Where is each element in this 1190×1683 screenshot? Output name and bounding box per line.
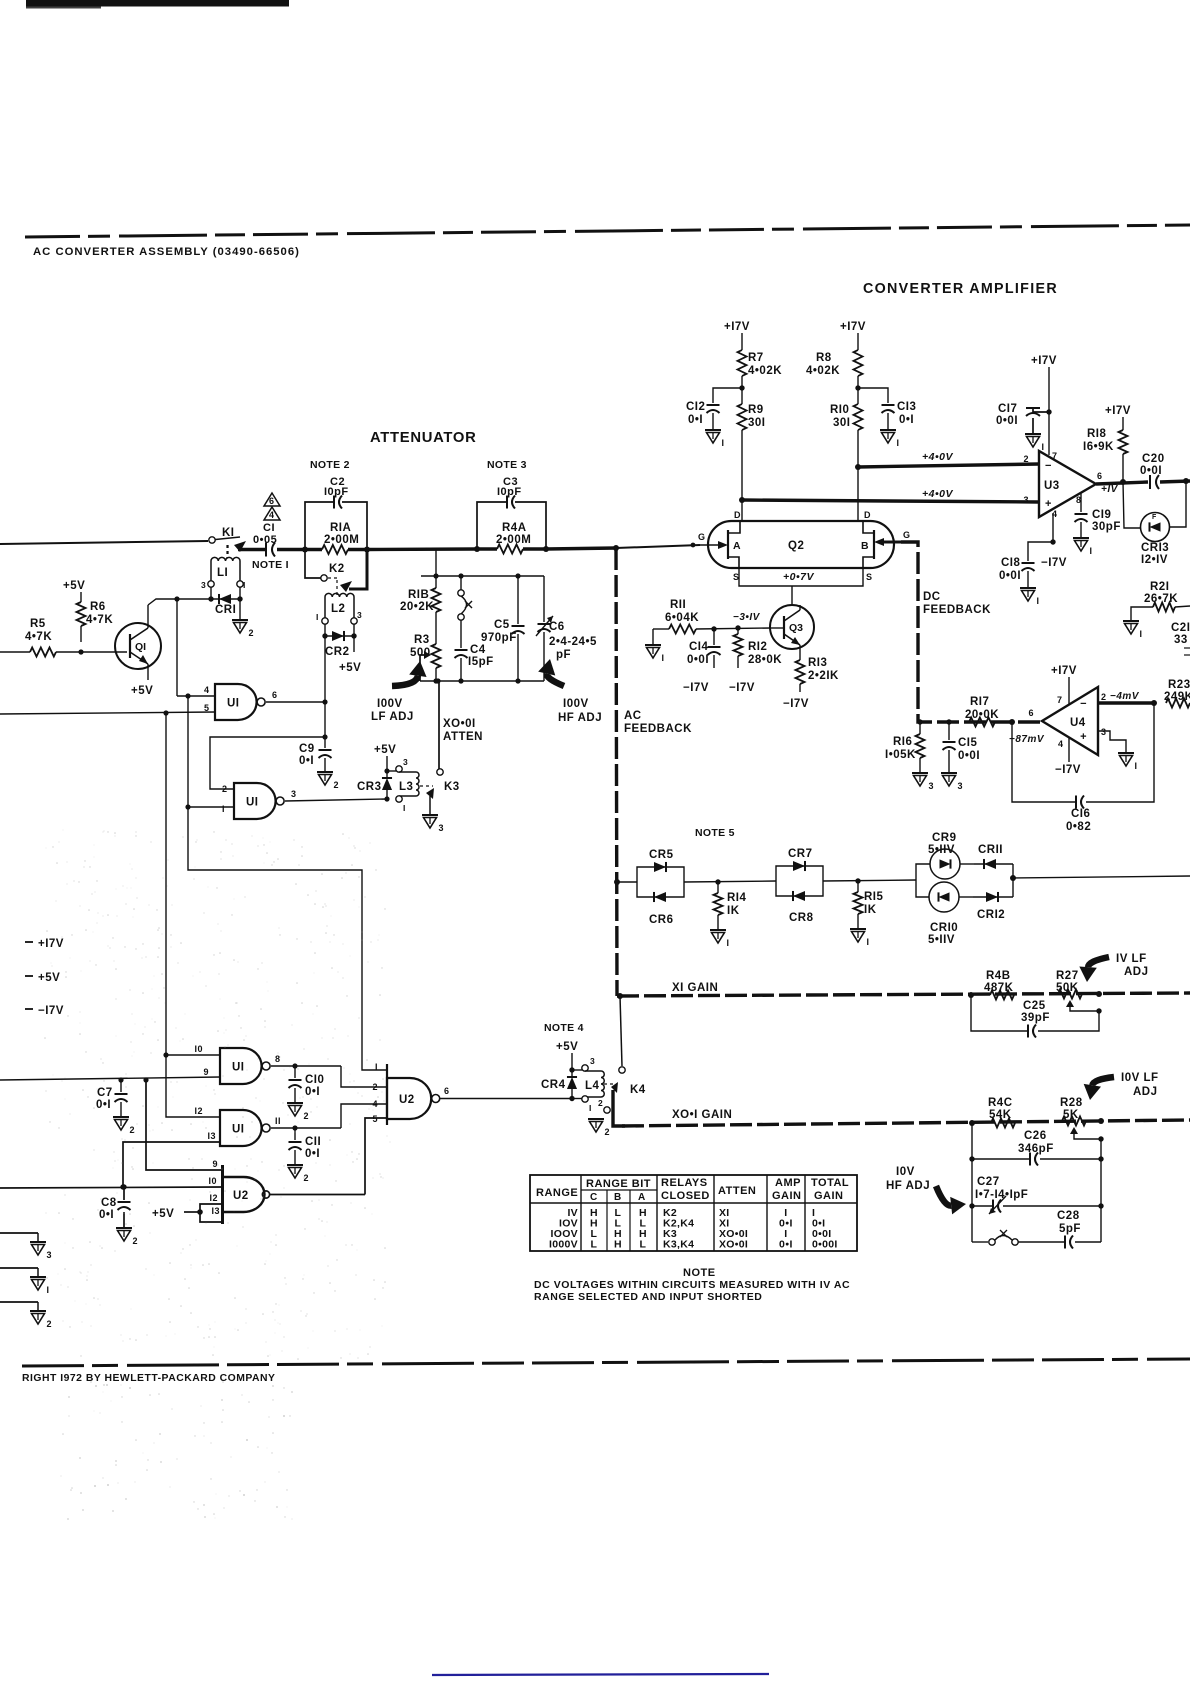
svg-text:30pF: 30pF bbox=[1092, 521, 1121, 533]
diode CR3 bbox=[357, 771, 392, 799]
svg-text:L: L bbox=[640, 1239, 647, 1251]
svg-text:NOTE 4: NOTE 4 bbox=[544, 1022, 584, 1034]
C3 bypass box bbox=[477, 502, 546, 549]
U1b pin1 wire bbox=[185, 804, 234, 814]
svg-text:NOTE 3: NOTE 3 bbox=[487, 459, 527, 471]
svg-text:ATTENUATOR: ATTENUATOR bbox=[370, 430, 476, 446]
+5V to U2b bbox=[152, 1204, 222, 1222]
assembly title bbox=[33, 246, 300, 258]
svg-text:7: 7 bbox=[1052, 451, 1058, 461]
relay coil L4 bbox=[572, 1056, 617, 1113]
svg-text:2•2IK: 2•2IK bbox=[808, 670, 839, 682]
svg-text:I00V: I00V bbox=[377, 698, 403, 710]
svg-text:I: I bbox=[662, 653, 665, 663]
wire R1A to R4A (thick) bbox=[367, 547, 477, 551]
svg-text:30I: 30I bbox=[833, 417, 851, 429]
resistor R7 bbox=[738, 333, 783, 377]
svg-text:RANGE BIT: RANGE BIT bbox=[586, 1178, 651, 1190]
riser U2 pin1 line bbox=[188, 807, 387, 1070]
arrow 100V HF ADJ bbox=[538, 659, 602, 724]
svg-text:−: − bbox=[1045, 460, 1052, 472]
svg-text:RI3: RI3 bbox=[808, 657, 827, 669]
svg-text:3: 3 bbox=[47, 1250, 53, 1260]
svg-text:DC VOLTAGES WITHIN CIRCUITS M: DC VOLTAGES WITHIN CIRCUITS MEASURED WIT… bbox=[534, 1279, 850, 1291]
svg-text:CR2: CR2 bbox=[325, 646, 350, 658]
svg-text:+5V: +5V bbox=[63, 580, 85, 592]
node U2d pin9 riser bbox=[143, 1077, 148, 1082]
diode CR11 bbox=[974, 844, 1013, 878]
svg-text:I•05K: I•05K bbox=[885, 749, 916, 761]
svg-text:AC: AC bbox=[624, 710, 642, 722]
capacitor C27 variable bbox=[969, 1176, 1103, 1214]
svg-text:CI6: CI6 bbox=[1071, 808, 1090, 820]
svg-text:R2I: R2I bbox=[1150, 581, 1169, 593]
svg-text:−3•IV: −3•IV bbox=[733, 612, 761, 623]
U2a pin2 link bbox=[341, 1066, 387, 1087]
svg-text:ADJ: ADJ bbox=[1133, 1086, 1158, 1098]
wire chain segment 1 bbox=[617, 881, 637, 883]
copyright line bbox=[22, 1373, 275, 1384]
svg-text:TOTAL: TOTAL bbox=[811, 1177, 849, 1189]
label X0.01 ATTEN bbox=[443, 718, 483, 743]
svg-text:CI5: CI5 bbox=[958, 737, 978, 749]
svg-text:+4•0V: +4•0V bbox=[922, 451, 953, 463]
svg-text:7: 7 bbox=[1057, 695, 1063, 705]
capacitor C17 bbox=[996, 403, 1049, 452]
ground R11 bbox=[645, 629, 669, 663]
resistor R16 bbox=[885, 719, 934, 791]
resistor R6 bbox=[77, 592, 114, 642]
arrow 100V LF ADJ bbox=[371, 661, 427, 723]
node X1 left bbox=[968, 992, 974, 998]
svg-text:5•IIV: 5•IIV bbox=[928, 934, 955, 946]
wire R10 down to Q2 drain B bbox=[855, 430, 861, 521]
wire R4A to Q2 gate (thick) bbox=[546, 545, 700, 549]
node R7-R9 bbox=[739, 376, 744, 404]
wire CR2 node down bbox=[322, 702, 327, 740]
label NOTE 5 bbox=[695, 827, 735, 839]
svg-text:I: I bbox=[727, 938, 730, 948]
resistor R5 bbox=[0, 618, 81, 657]
svg-text:R27: R27 bbox=[1056, 970, 1079, 982]
wire K1 to C1 (thick) bbox=[238, 548, 265, 551]
transistor Q2 bbox=[698, 510, 911, 582]
node diode chain left bbox=[614, 879, 620, 885]
resistor R8 bbox=[806, 333, 863, 377]
resistor R4C bbox=[988, 1097, 1015, 1128]
relay contact K3 bbox=[422, 769, 460, 833]
svg-text:RIA: RIA bbox=[330, 522, 351, 534]
svg-text:3: 3 bbox=[590, 1056, 595, 1066]
note line 1 bbox=[534, 1279, 850, 1291]
svg-text:CI: CI bbox=[263, 522, 275, 534]
svg-text:RELAYS: RELAYS bbox=[661, 1177, 708, 1189]
svg-text:+5V: +5V bbox=[374, 744, 396, 756]
svg-text:CRI3: CRI3 bbox=[1141, 542, 1169, 554]
node R4A left bbox=[474, 546, 480, 552]
note line 2 bbox=[534, 1291, 762, 1303]
svg-text:5: 5 bbox=[204, 703, 210, 713]
U2b pin9 wire bbox=[146, 1080, 222, 1170]
switch X0.01 upper contact bbox=[458, 576, 472, 620]
svg-text:I: I bbox=[316, 612, 319, 622]
svg-text:−I7V: −I7V bbox=[729, 682, 755, 694]
svg-text:R5: R5 bbox=[30, 618, 46, 630]
capacitor C18 bbox=[999, 542, 1053, 606]
svg-text:30I: 30I bbox=[748, 417, 766, 429]
svg-text:AMP: AMP bbox=[775, 1177, 801, 1189]
svg-text:pF: pF bbox=[556, 649, 571, 661]
svg-text:0•I: 0•I bbox=[688, 414, 703, 426]
label NOTE 4 bbox=[544, 1022, 584, 1034]
svg-text:3: 3 bbox=[403, 757, 408, 767]
U1c pin9 wire bbox=[0, 1067, 220, 1080]
svg-text:C9: C9 bbox=[299, 743, 315, 755]
svg-text:A: A bbox=[733, 540, 741, 552]
svg-text:RIB: RIB bbox=[408, 589, 429, 601]
node CR1 left vert bbox=[174, 596, 179, 601]
svg-text:CONVERTER AMPLIFIER: CONVERTER AMPLIFIER bbox=[863, 281, 1058, 297]
wire chain to edge bbox=[1010, 875, 1190, 881]
diode CR2 bbox=[322, 624, 356, 658]
capacitor C8 bbox=[99, 1184, 138, 1246]
U2b pin13 label bbox=[211, 1206, 220, 1216]
svg-text:I: I bbox=[1140, 629, 1143, 639]
svg-text:2: 2 bbox=[133, 1236, 139, 1246]
U4 pin3 wire bbox=[1098, 731, 1138, 771]
U1a pin4 wire bbox=[177, 685, 215, 699]
wire chain segment 2 bbox=[684, 879, 776, 884]
svg-text:−I7V: −I7V bbox=[683, 682, 709, 694]
svg-text:R3: R3 bbox=[414, 634, 430, 646]
svg-text:CRI0: CRI0 bbox=[930, 922, 958, 934]
capacitor C9 bbox=[299, 737, 339, 790]
svg-text:4•7K: 4•7K bbox=[86, 614, 113, 626]
rail label -17V bbox=[25, 1005, 64, 1017]
svg-text:CI8: CI8 bbox=[1001, 557, 1021, 569]
wire chain segment 3 bbox=[823, 878, 916, 883]
nand U1a bbox=[215, 684, 265, 720]
relay coil L2 bbox=[316, 593, 362, 624]
svg-text:0•00I: 0•00I bbox=[812, 1239, 838, 1251]
svg-text:CI0: CI0 bbox=[305, 1074, 324, 1086]
C2 bypass box bbox=[305, 502, 367, 549]
resistor R1B bbox=[400, 576, 441, 613]
svg-text:I: I bbox=[47, 1285, 50, 1295]
arrow 1V LF ADJ bbox=[1079, 953, 1148, 982]
svg-text:CI7: CI7 bbox=[998, 403, 1017, 415]
switch C28 row bbox=[972, 1230, 1064, 1245]
svg-text:2: 2 bbox=[605, 1127, 611, 1137]
svg-text:0•I: 0•I bbox=[299, 755, 314, 767]
svg-text:0•0I: 0•0I bbox=[958, 750, 980, 762]
U1d output wire bbox=[271, 1116, 341, 1131]
capacitor C13 bbox=[858, 388, 916, 448]
node C7 bbox=[118, 1077, 123, 1082]
resistor R21 bbox=[1123, 581, 1190, 639]
svg-text:GAIN: GAIN bbox=[772, 1190, 802, 1202]
svg-text:ADJ: ADJ bbox=[1124, 966, 1149, 978]
capacitor C7 bbox=[96, 1080, 135, 1135]
svg-text:2: 2 bbox=[130, 1125, 136, 1135]
resistor R13 bbox=[783, 645, 839, 710]
svg-text:I6•9K: I6•9K bbox=[1083, 441, 1114, 453]
svg-text:IK: IK bbox=[727, 905, 740, 917]
svg-text:3: 3 bbox=[357, 610, 362, 620]
svg-text:UI: UI bbox=[232, 1062, 245, 1074]
svg-text:4•02K: 4•02K bbox=[806, 365, 840, 377]
capacitor C14 bbox=[683, 629, 721, 694]
svg-text:R9: R9 bbox=[748, 404, 764, 416]
svg-text:+5V: +5V bbox=[339, 662, 361, 674]
node divider switch top bbox=[458, 573, 463, 578]
svg-text:4•02K: 4•02K bbox=[748, 365, 782, 377]
warning triangle 4 bbox=[264, 507, 280, 520]
svg-text:C20: C20 bbox=[1142, 453, 1165, 465]
capacitor C3 bbox=[497, 476, 522, 509]
svg-text:0•I: 0•I bbox=[779, 1239, 793, 1251]
U3 output wire (thick) bbox=[1096, 479, 1148, 495]
rail label +17V bbox=[25, 938, 64, 950]
top dashed assembly border bbox=[25, 225, 1190, 237]
svg-text:CRI: CRI bbox=[215, 604, 236, 616]
relay contact K2 bbox=[305, 549, 367, 597]
ground stub 3 bbox=[0, 1233, 52, 1260]
svg-text:+I7V: +I7V bbox=[1051, 665, 1077, 677]
svg-text:+5V: +5V bbox=[556, 1041, 578, 1053]
svg-text:2: 2 bbox=[249, 628, 255, 638]
svg-text:C: C bbox=[590, 1192, 598, 1203]
wire Q1 collector to CR1 node bbox=[148, 599, 212, 605]
label -3.1V bbox=[733, 612, 761, 623]
node R8-R10 bbox=[855, 376, 860, 404]
svg-text:I2: I2 bbox=[194, 1106, 203, 1116]
diode CR8 bbox=[776, 881, 823, 924]
svg-text:2: 2 bbox=[304, 1111, 310, 1121]
svg-text:RI4: RI4 bbox=[727, 892, 747, 904]
svg-text:9: 9 bbox=[203, 1067, 209, 1077]
svg-text:0•I: 0•I bbox=[305, 1148, 320, 1160]
svg-text:2•4-24•5: 2•4-24•5 bbox=[549, 636, 597, 648]
wire DC feedback (thick dashed) bbox=[901, 542, 1042, 722]
U1a output wire bbox=[266, 690, 328, 705]
svg-text:B: B bbox=[861, 540, 869, 552]
svg-text:I0pF: I0pF bbox=[324, 486, 349, 498]
svg-text:UI: UI bbox=[246, 797, 259, 809]
U1d pin12 wire bbox=[166, 1055, 220, 1117]
+17V label U4 bbox=[1051, 665, 1077, 704]
svg-text:I: I bbox=[722, 438, 725, 448]
wire X1 gain (thick dashed) bbox=[617, 982, 1190, 996]
svg-text:K4: K4 bbox=[630, 1084, 646, 1096]
svg-text:+I7V: +I7V bbox=[1105, 405, 1131, 417]
svg-text:IK: IK bbox=[864, 904, 877, 916]
svg-text:Q3: Q3 bbox=[789, 622, 803, 634]
svg-text:C5: C5 bbox=[494, 619, 510, 631]
wire R1A-right down bbox=[435, 549, 437, 576]
svg-text:Q2: Q2 bbox=[788, 540, 804, 552]
svg-text:I•7-I4•IpF: I•7-I4•IpF bbox=[975, 1189, 1028, 1201]
wire +4.0V lower (thick) bbox=[742, 488, 1039, 502]
+5V for L4 bbox=[556, 1041, 578, 1073]
svg-text:C27: C27 bbox=[977, 1176, 1000, 1188]
capacitor C2 bbox=[324, 476, 349, 509]
svg-text:I: I bbox=[222, 804, 225, 814]
svg-text:4•7K: 4•7K bbox=[25, 631, 52, 643]
riser B line bbox=[165, 713, 167, 1055]
svg-text:2: 2 bbox=[47, 1319, 53, 1329]
svg-text:RANGE SELECTED AND INPUT SH: RANGE SELECTED AND INPUT SHORTED bbox=[534, 1291, 762, 1303]
+17V label R18 bbox=[1105, 405, 1131, 417]
wire AC feedback (thick dashed) bbox=[616, 548, 617, 996]
note heading bbox=[683, 1267, 716, 1279]
svg-text:DC: DC bbox=[923, 591, 941, 603]
+5V label R6 bbox=[63, 580, 85, 592]
svg-text:RANGE: RANGE bbox=[536, 1187, 578, 1199]
resistor R9 bbox=[738, 404, 766, 430]
svg-text:346pF: 346pF bbox=[1018, 1143, 1054, 1155]
Q2 source bus bbox=[739, 568, 863, 605]
svg-text:+IV: +IV bbox=[1101, 484, 1119, 495]
svg-text:+: + bbox=[1080, 731, 1087, 743]
U2a output wire bbox=[440, 1086, 573, 1099]
svg-text:C28: C28 bbox=[1057, 1210, 1080, 1222]
svg-text:I: I bbox=[1135, 761, 1138, 771]
resistor R14 bbox=[710, 882, 747, 948]
svg-text:D: D bbox=[734, 510, 741, 520]
svg-text:IV LF: IV LF bbox=[1116, 953, 1147, 965]
wire R11 to Q3 base bbox=[696, 625, 771, 631]
svg-text:U3: U3 bbox=[1044, 480, 1060, 492]
svg-text:RI6: RI6 bbox=[893, 736, 912, 748]
svg-text:−: − bbox=[1080, 698, 1087, 710]
svg-text:ATTEN: ATTEN bbox=[718, 1185, 756, 1197]
svg-text:I: I bbox=[403, 803, 406, 813]
svg-text:2: 2 bbox=[1023, 454, 1029, 464]
svg-text:RII: RII bbox=[670, 599, 686, 611]
svg-text:D: D bbox=[864, 510, 871, 520]
nand U2b bbox=[223, 1165, 270, 1224]
capacitor C25 bbox=[971, 995, 1099, 1038]
node U4 out bbox=[1009, 719, 1015, 725]
U1a pin5 wire bbox=[0, 703, 215, 716]
label DC FEEDBACK bbox=[923, 591, 991, 616]
svg-text:H: H bbox=[614, 1239, 622, 1251]
svg-text:0•0I: 0•0I bbox=[999, 570, 1021, 582]
svg-text:9: 9 bbox=[212, 1159, 218, 1169]
pot R27 bbox=[1056, 970, 1102, 1014]
svg-text:−I7V: −I7V bbox=[38, 1005, 64, 1017]
svg-text:NOTE I: NOTE I bbox=[252, 559, 289, 571]
warning triangle 6 bbox=[264, 493, 280, 506]
relay contact K1 bbox=[209, 527, 246, 557]
svg-text:FEEDBACK: FEEDBACK bbox=[624, 723, 692, 735]
svg-text:I0V LF: I0V LF bbox=[1121, 1072, 1159, 1084]
svg-text:0•I: 0•I bbox=[305, 1086, 320, 1098]
svg-text:2•00M: 2•00M bbox=[496, 534, 531, 546]
svg-text:NOTE 2: NOTE 2 bbox=[310, 459, 350, 471]
U1d pin13 wire bbox=[120, 1131, 220, 1190]
svg-text:A: A bbox=[638, 1192, 646, 1203]
svg-text:3: 3 bbox=[958, 781, 964, 791]
wire R9 down to Q2 drain A bbox=[739, 430, 745, 521]
svg-text:4: 4 bbox=[204, 685, 210, 695]
svg-text:I: I bbox=[867, 937, 870, 947]
resistor R15 bbox=[850, 881, 884, 947]
svg-text:+0•7V: +0•7V bbox=[783, 571, 814, 583]
svg-text:0•I: 0•I bbox=[899, 414, 914, 426]
svg-text:39pF: 39pF bbox=[1021, 1012, 1050, 1024]
svg-text:6•04K: 6•04K bbox=[665, 612, 699, 624]
svg-text:R7: R7 bbox=[748, 352, 764, 364]
svg-text:−I7V: −I7V bbox=[1041, 557, 1067, 569]
svg-text:−87mV: −87mV bbox=[1009, 734, 1045, 745]
svg-text:+4•0V: +4•0V bbox=[922, 488, 953, 500]
svg-text:XO•I GAIN: XO•I GAIN bbox=[672, 1109, 732, 1121]
diode CR12 bbox=[973, 878, 1013, 921]
svg-text:RI2: RI2 bbox=[748, 641, 767, 653]
-17V label U4 bbox=[1055, 738, 1081, 776]
svg-text:C2I: C2I bbox=[1171, 622, 1190, 634]
ground stub 1 bbox=[0, 1268, 50, 1295]
svg-text:LF ADJ: LF ADJ bbox=[371, 711, 414, 723]
svg-text:3: 3 bbox=[201, 580, 206, 590]
svg-text:ATTEN: ATTEN bbox=[443, 731, 483, 743]
svg-text:+5V: +5V bbox=[38, 972, 60, 984]
svg-text:I: I bbox=[1090, 546, 1093, 556]
svg-text:4: 4 bbox=[269, 510, 274, 520]
bottom dashed assembly border bbox=[22, 1359, 1190, 1366]
U2b pin10 wire bbox=[0, 1176, 222, 1188]
svg-text:CR9: CR9 bbox=[932, 832, 957, 844]
capacitor C1 bbox=[253, 522, 277, 557]
svg-text:I3: I3 bbox=[211, 1206, 220, 1216]
node Q2 gate stub bbox=[691, 543, 696, 548]
wire U2a out to L4 bbox=[569, 1096, 582, 1101]
svg-text:4: 4 bbox=[1058, 739, 1064, 749]
svg-text:6: 6 bbox=[269, 496, 274, 506]
bottom blue rule bbox=[432, 1674, 769, 1675]
U1c output wire bbox=[271, 1054, 341, 1069]
svg-text:C4: C4 bbox=[470, 644, 486, 656]
svg-text:+5V: +5V bbox=[152, 1208, 174, 1220]
diode CR4 bbox=[541, 1070, 577, 1098]
wire +4.0V upper (thick) bbox=[858, 451, 1039, 467]
resistor R12 bbox=[729, 628, 782, 694]
svg-text:R4A: R4A bbox=[502, 522, 527, 534]
diode CR7 bbox=[776, 848, 823, 881]
svg-text:CRI2: CRI2 bbox=[977, 909, 1005, 921]
capacitor C20 bbox=[1140, 453, 1190, 489]
node divider top-left bbox=[433, 573, 438, 578]
svg-text:2: 2 bbox=[372, 1082, 378, 1092]
svg-text:R4B: R4B bbox=[986, 970, 1011, 982]
svg-text:RIGHT I972 BY HEWLETT-PACKARD: RIGHT I972 BY HEWLETT-PACKARD COMPANY bbox=[22, 1373, 275, 1384]
svg-text:3: 3 bbox=[1023, 495, 1029, 505]
svg-text:CR8: CR8 bbox=[789, 912, 814, 924]
svg-text:0•0I: 0•0I bbox=[996, 415, 1018, 427]
svg-text:I000V: I000V bbox=[549, 1239, 578, 1251]
pot R28 bbox=[1060, 1097, 1104, 1142]
svg-text:XO•0I: XO•0I bbox=[443, 718, 476, 730]
svg-text:+I7V: +I7V bbox=[840, 321, 866, 333]
svg-text:G: G bbox=[903, 530, 911, 540]
svg-text:R6: R6 bbox=[90, 601, 106, 613]
svg-text:I2: I2 bbox=[209, 1193, 218, 1203]
capacitor C6 variable bbox=[536, 576, 597, 681]
capacitor C15 bbox=[941, 719, 980, 791]
svg-text:NOTE: NOTE bbox=[683, 1267, 716, 1279]
